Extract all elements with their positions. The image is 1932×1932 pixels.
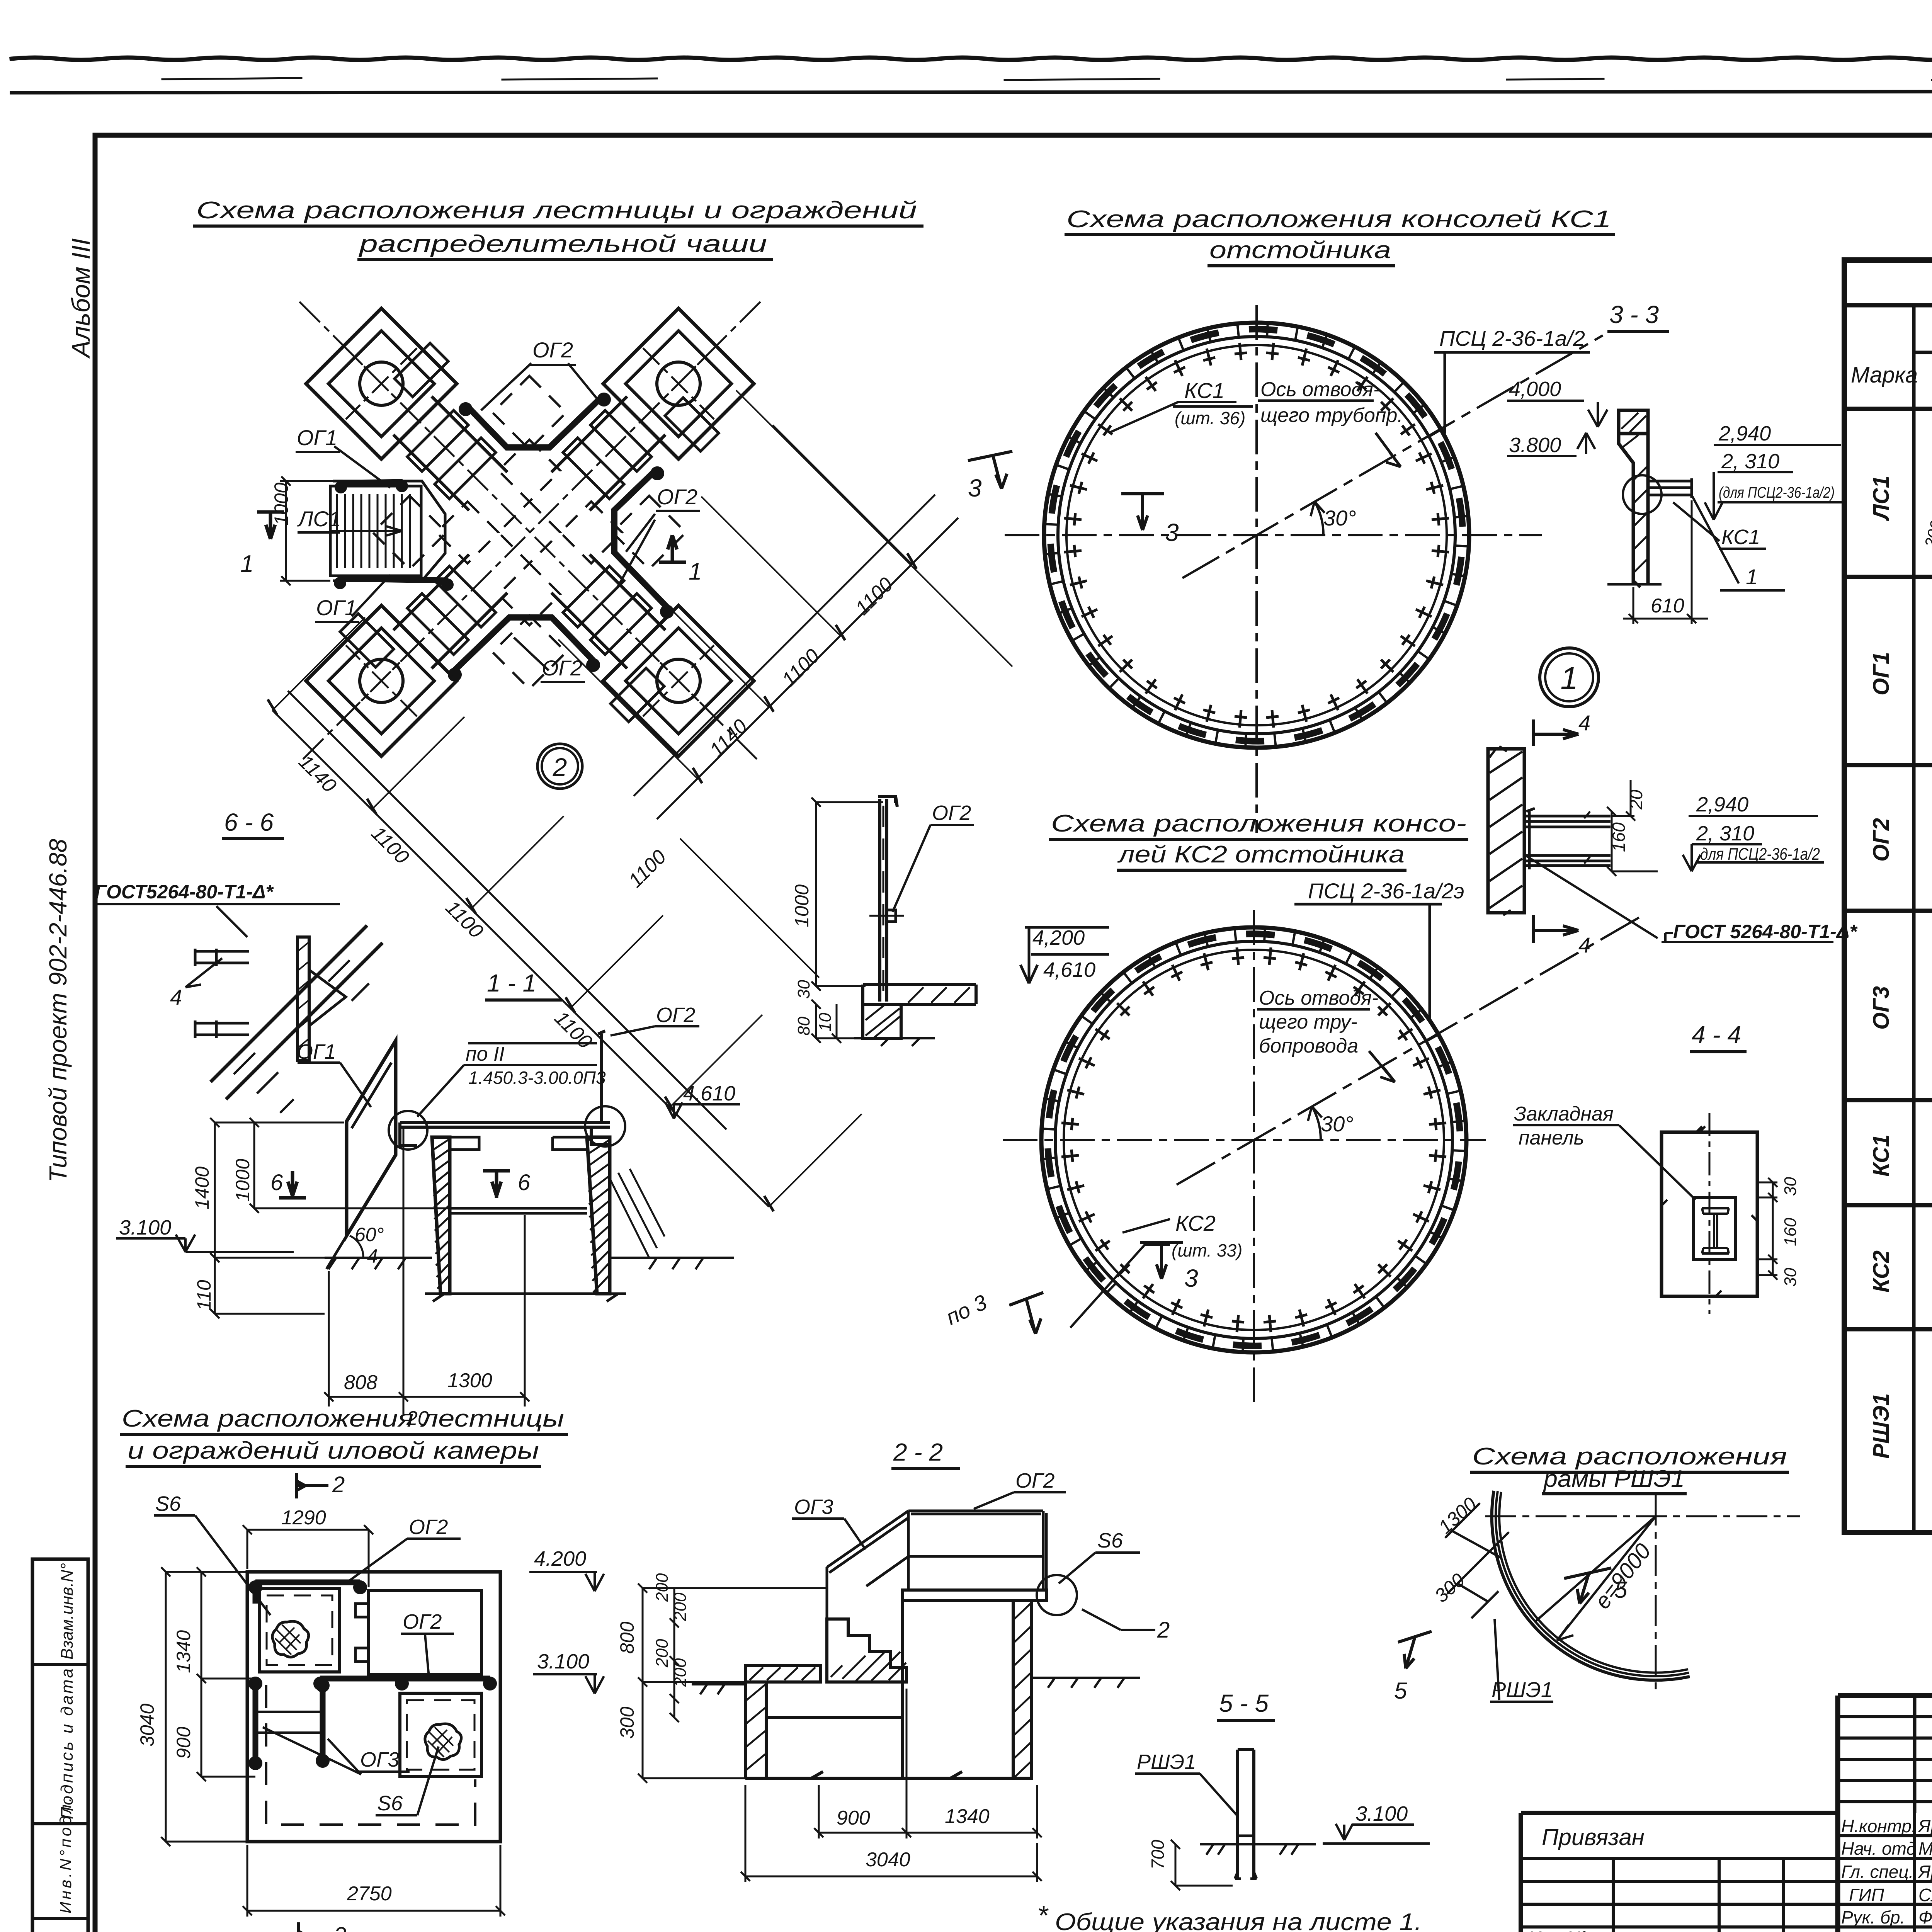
svg-text:Нач. отд: Нач. отд [1841, 1838, 1916, 1859]
table title row divider [1844, 303, 1932, 308]
svg-text:4: 4 [170, 985, 182, 1009]
svg-text:Подпись и дата: Подпись и дата [58, 1668, 77, 1819]
console beams [1524, 816, 1611, 827]
svg-text:S6: S6 [155, 1492, 181, 1515]
svg-text:700: 700 [1148, 1840, 1168, 1869]
sludge chamber outer square [247, 1572, 500, 1842]
main block [902, 1600, 1013, 1778]
svg-text:РШЭ1: РШЭ1 [1137, 1750, 1196, 1774]
svg-text:ОГ2: ОГ2 [656, 1003, 695, 1027]
svg-text:3.100: 3.100 [119, 1216, 171, 1239]
ring KC1 centerlines [1005, 534, 1542, 536]
dim 300 [1447, 1567, 1498, 1618]
svg-text:1 - 1: 1 - 1 [487, 969, 536, 997]
svg-text:1: 1 [1560, 661, 1578, 696]
left platform slab [745, 1665, 821, 1682]
console KC1 beam [1648, 478, 1692, 498]
svg-text:Типовой проект 902-2-446.88: Типовой проект 902-2-446.88 [44, 838, 72, 1182]
svg-text:ОГ2: ОГ2 [409, 1515, 448, 1539]
svg-text:S6: S6 [1097, 1529, 1123, 1552]
svg-text:3.100: 3.100 [1355, 1802, 1408, 1825]
placeholder groups to be filled [240, 302, 1012, 1211]
svg-text:Закладная: Закладная [1514, 1103, 1614, 1125]
3-3 wall body [1619, 434, 1648, 584]
по II leader [417, 1065, 597, 1117]
ОГ1 railing panel in section 1-1 [347, 1041, 396, 1236]
platform end angles [400, 1122, 610, 1146]
svg-text:5 - 5: 5 - 5 [1219, 1689, 1269, 1717]
svg-text:5: 5 [1614, 1577, 1628, 1603]
svg-text:S6: S6 [377, 1792, 403, 1815]
svg-text:5: 5 [1394, 1678, 1407, 1704]
X-plan labels [297, 338, 697, 680]
ОГ2 label leader [350, 1539, 461, 1580]
60deg angle arc [350, 1236, 363, 1258]
svg-text:ОГ1: ОГ1 [1869, 652, 1894, 696]
X-plan pavilion inner squares [328, 331, 731, 734]
right concrete wall hatched [587, 1137, 610, 1294]
6-6 weld joint detail [211, 925, 383, 1099]
svg-text:ПСЦ 2-36-1а/2э: ПСЦ 2-36-1а/2э [1308, 879, 1464, 903]
inner embedded plate [1694, 1197, 1735, 1259]
Ось отводящего arrow [1376, 433, 1401, 467]
X-plan pavilion-side slabs [340, 343, 719, 722]
arc centerlines [1485, 1515, 1800, 1517]
svg-text:1000: 1000 [232, 1159, 253, 1202]
ГОСТ label leader [95, 904, 340, 937]
svg-text:4: 4 [367, 1245, 378, 1267]
КС1 label leader [1673, 502, 1766, 549]
svg-text:Фомина: Фомина [1918, 1907, 1932, 1927]
svg-text:200: 200 [671, 1658, 690, 1687]
svg-text:КС1: КС1 [1869, 1134, 1894, 1177]
svg-text:808: 808 [344, 1371, 378, 1394]
svg-text:610: 610 [1651, 595, 1684, 617]
X-plan arm edges [393, 396, 665, 668]
walkway between walls [450, 1208, 587, 1213]
svg-text:1000: 1000 [270, 483, 292, 526]
svg-text:Схема расположения консо-: Схема расположения консо- [1051, 810, 1466, 837]
svg-text:Ярошенко: Ярошенко [1917, 1816, 1932, 1836]
svg-text:60°: 60° [355, 1224, 384, 1245]
heavy rail top ОГ2 [255, 1582, 360, 1604]
svg-text:6: 6 [518, 1170, 531, 1195]
ground [1200, 1844, 1316, 1855]
bottom dims [814, 1689, 1042, 1838]
stairs steps hatched [827, 1619, 906, 1682]
section flags 4 [1533, 719, 1578, 746]
svg-text:6: 6 [270, 1170, 283, 1195]
svg-text:ОГ3: ОГ3 [360, 1748, 399, 1771]
svg-text:2: 2 [332, 1472, 345, 1497]
svg-text:(шт. 36): (шт. 36) [1175, 408, 1245, 428]
radius leaders [1536, 1516, 1656, 1640]
ring KC2 console marks [1061, 947, 1446, 1332]
ring KC2 centerlines [1003, 1139, 1486, 1141]
svg-text:щего тру-: щего тру- [1259, 1011, 1357, 1033]
svg-text:1.450.3-3.00.0П3: 1.450.3-3.00.0П3 [468, 1068, 606, 1088]
svg-text:лей КС2 отстойника: лей КС2 отстойника [1117, 841, 1405, 868]
svg-text:ОГ2: ОГ2 [1015, 1469, 1054, 1492]
svg-text:ЛС1: ЛС1 [1869, 476, 1894, 521]
right hatched column [1013, 1600, 1032, 1778]
svg-text:2, 310: 2, 310 [1696, 822, 1754, 845]
КС1 label leader [1109, 402, 1236, 433]
svg-text:30: 30 [794, 980, 813, 999]
bolts left [195, 949, 249, 966]
svg-text:ОГ2: ОГ2 [532, 338, 573, 362]
svg-text:2: 2 [1157, 1617, 1170, 1643]
elevation 4.200/4.610 KC2 [1020, 927, 1109, 983]
svg-text:900: 900 [837, 1807, 870, 1829]
КС2 label leader [1070, 1219, 1170, 1328]
platform beam [400, 1122, 610, 1127]
dim lines left [638, 1583, 827, 1783]
pavilion circle centerlines [346, 348, 714, 716]
РШЭ1 frame quarter arc [1499, 1492, 1688, 1673]
svg-text:КС2: КС2 [1175, 1211, 1216, 1235]
left concrete wall hatched [432, 1137, 450, 1294]
svg-text:800: 800 [616, 1621, 638, 1654]
svg-text:ОГ2: ОГ2 [1869, 818, 1894, 862]
svg-text:РШЭ1: РШЭ1 [1492, 1677, 1553, 1702]
svg-text:6 - 6: 6 - 6 [224, 808, 274, 836]
ПСЦ label leader [1434, 352, 1590, 434]
svg-text:1000: 1000 [791, 884, 813, 927]
svg-text:2,940: 2,940 [1696, 793, 1748, 816]
svg-text:4 - 4: 4 - 4 [1692, 1021, 1741, 1049]
dim chain bottom-left [272, 691, 769, 1207]
ring KC2 dark panel segments [1048, 934, 1460, 1346]
drawing number 2 circle [537, 744, 582, 789]
elevation 4.200 [529, 1572, 604, 1591]
svg-text:Схема расположения консолей: Схема расположения консолей КС1 [1066, 206, 1611, 233]
ring KC2 panel joints [1041, 927, 1467, 1353]
svg-text:4,200: 4,200 [1032, 926, 1085, 949]
svg-text:3040: 3040 [136, 1704, 158, 1747]
flags 2 [297, 1473, 328, 1498]
svg-text:200: 200 [671, 1592, 690, 1621]
svg-text:КС1: КС1 [1184, 378, 1225, 403]
X-plan diagonal centerlines [299, 302, 760, 763]
svg-text:Рук. бр.: Рук. бр. [1841, 1907, 1905, 1927]
svg-text:30: 30 [1781, 1177, 1800, 1196]
svg-text:3: 3 [968, 474, 982, 502]
svg-text:Взам.инв.N°: Взам.инв.N° [58, 1563, 77, 1660]
svg-text:30: 30 [1781, 1268, 1800, 1287]
bay railing heavy polylines ОГ2 [455, 395, 667, 670]
middle heavy rail [320, 1676, 490, 1682]
svg-text:ОГ1: ОГ1 [297, 425, 337, 450]
embedded panel 4-4 [1662, 1132, 1757, 1296]
ОГ2 #2 leader [401, 1634, 454, 1677]
dim chain right [634, 495, 958, 819]
svg-text:щего трубопр.: щего трубопр. [1260, 404, 1403, 427]
wall bottoms [425, 1294, 626, 1301]
big dashed inner outline [266, 1685, 475, 1825]
dim 1000 [811, 798, 883, 991]
svg-text:и ограждений иловой камеры: и ограждений иловой камеры [128, 1437, 539, 1464]
ring KC1 dark panel segments [1051, 329, 1463, 741]
ground right with slope hatch [610, 1258, 734, 1269]
svg-text:ОГ2: ОГ2 [542, 656, 582, 680]
ОГ2 post [598, 1031, 605, 1122]
svg-text:Привязан: Привязан [1542, 1824, 1645, 1850]
svg-text:3: 3 [1165, 519, 1179, 546]
svg-text:30°: 30° [1323, 506, 1356, 530]
svg-text:для ПСЦ2-36-1а/2: для ПСЦ2-36-1а/2 [1700, 845, 1820, 864]
bottom dims [324, 1128, 529, 1414]
svg-text:1290: 1290 [281, 1507, 326, 1529]
flag 5 upper [1564, 1568, 1611, 1604]
svg-text:ГОСТ5264-80-Т1-Δ*: ГОСТ5264-80-Т1-Δ* [95, 881, 274, 903]
svg-text:4.200: 4.200 [534, 1547, 586, 1570]
svg-text:Схема расположения лестницы: Схема расположения лестницы [122, 1405, 564, 1432]
dim 160/20 [1607, 780, 1658, 876]
svg-text:2: 2 [333, 1923, 346, 1932]
svg-text:Ст. инж.: Ст. инж. [1841, 1929, 1915, 1932]
4 leader [185, 958, 222, 987]
upper-left hatch opening [260, 1588, 339, 1672]
upper small grid [1838, 1717, 1932, 1802]
lower-right opening [400, 1693, 481, 1777]
svg-text:ГОСТ 5264-80-Т1-Δ*: ГОСТ 5264-80-Т1-Δ* [1673, 921, 1858, 942]
2,940/2,310 labels [1705, 445, 1843, 520]
700 dim [1171, 1840, 1233, 1890]
svg-text:Н.контр.: Н.контр. [1841, 1816, 1917, 1836]
svg-text:900: 900 [173, 1726, 194, 1759]
610 dim [1623, 500, 1708, 624]
svg-text:КС2: КС2 [1869, 1250, 1894, 1293]
bottom dim 2750 [243, 1845, 505, 1917]
4.610 elevation [665, 1102, 740, 1119]
joint circles [389, 1111, 427, 1150]
ring KC1 30deg arc arrow [1315, 502, 1323, 535]
svg-text:РШЭ1: РШЭ1 [1869, 1393, 1894, 1459]
svg-text:30°: 30° [1321, 1112, 1354, 1136]
svg-text:200: 200 [653, 1639, 672, 1668]
svg-text:1: 1 [689, 558, 702, 585]
svg-text:3 - 3: 3 - 3 [1609, 301, 1659, 328]
labels 2,940 / 2,310 [1683, 816, 1824, 871]
svg-text:4,000: 4,000 [1509, 378, 1561, 401]
elevations 4.000 / 3.800 [1507, 401, 1607, 427]
svg-text:1400: 1400 [191, 1167, 213, 1209]
svg-text:*: * [1037, 1900, 1049, 1931]
ring KC2 30deg arc arrow [1312, 1106, 1321, 1140]
ОГ2 label leader [611, 1026, 699, 1036]
svg-text:1300: 1300 [447, 1369, 492, 1392]
ground tick [1607, 582, 1662, 587]
svg-text:Гл. спец.: Гл. спец. [1841, 1862, 1913, 1882]
table Ведомость элементов : outer border [1844, 260, 1932, 1532]
big settler ring circle KC2 : outer wall [1041, 927, 1466, 1352]
svg-text:Ярошенко: Ярошенко [1917, 1862, 1932, 1882]
svg-text:3.100: 3.100 [537, 1650, 589, 1673]
data verticals full height [1914, 409, 1932, 1532]
svg-text:3040: 3040 [866, 1849, 910, 1871]
signature rows [1841, 1816, 1932, 1932]
svg-text:4,610: 4,610 [1043, 958, 1095, 981]
svg-text:2750: 2750 [347, 1883, 392, 1905]
svg-text:Мешалкин: Мешалкин [1918, 1838, 1932, 1859]
svg-text:ОГ3: ОГ3 [794, 1495, 833, 1519]
svg-text:200: 200 [653, 1573, 672, 1602]
svg-text:ОГ2: ОГ2 [657, 485, 697, 509]
ОГ3 leaders [263, 1727, 410, 1774]
svg-text:10: 10 [816, 1013, 835, 1032]
ring KC1 panel joints [1044, 322, 1469, 748]
svg-text:500: 500 [1930, 965, 1932, 989]
svg-text:ЛС1: ЛС1 [297, 507, 341, 531]
svg-text:300: 300 [616, 1706, 638, 1739]
S6 #2 leader [376, 1747, 439, 1815]
svg-text:20: 20 [406, 1407, 429, 1430]
left sidebar boxes [32, 1559, 88, 1932]
svg-text:4: 4 [1578, 933, 1590, 957]
svg-text:Ось отводя-: Ось отводя- [1259, 987, 1378, 1009]
svg-text:160: 160 [1781, 1218, 1800, 1246]
left lower block [745, 1682, 902, 1778]
bottom line [745, 1772, 1032, 1778]
РШЭ1 leader [1135, 1774, 1238, 1816]
elevation 3.100 [116, 1235, 294, 1252]
label leader [1513, 1125, 1696, 1200]
svg-text:отстойника: отстойника [1209, 237, 1391, 264]
svg-text:80: 80 [794, 1017, 813, 1036]
svg-text:ОГ2: ОГ2 [403, 1610, 442, 1633]
section 6 flags [279, 1171, 306, 1198]
slanted railing ОГ3 [827, 1511, 908, 1619]
ring KC2 30 deg outlet axis [1177, 915, 1644, 1185]
ground hatches [692, 1678, 1140, 1694]
svg-text:панель: панель [1519, 1127, 1584, 1149]
svg-text:2,940: 2,940 [1718, 422, 1771, 445]
svg-text:Инв.N°: Инв.N° [1528, 1928, 1587, 1932]
svg-text:160: 160 [1609, 822, 1629, 852]
block boundary heavy lines [1844, 577, 1932, 1329]
dims 30 80 10 [811, 1000, 862, 1043]
svg-text:по II: по II [466, 1043, 505, 1065]
svg-text:Общие указания на листе 1.: Общие указания на листе 1. [1055, 1909, 1422, 1932]
svg-text:Славянский: Славянский [1918, 1885, 1932, 1905]
title block outer border [1838, 1696, 1932, 1932]
svg-text:Схема расположения лестницы: Схема расположения лестницы и ограждений [196, 197, 917, 224]
svg-text:4.610: 4.610 [683, 1082, 735, 1105]
flag 5 lower left [1398, 1631, 1432, 1668]
svg-text:2, 310: 2, 310 [1721, 450, 1779, 473]
1 leader [1692, 497, 1785, 590]
Марка column rotated labels [1869, 476, 1894, 1459]
blob S6 upper [272, 1621, 309, 1657]
ПСЦ 2э label leader [1294, 904, 1442, 1019]
left dim lines [161, 1567, 255, 1846]
svg-text:(для ПСЦ2-36-1а/2): (для ПСЦ2-36-1а/2) [1719, 484, 1835, 501]
right room [369, 1590, 481, 1674]
elevation 3.100 [533, 1674, 604, 1694]
labels leaders [974, 1492, 1066, 1509]
svg-text:1340: 1340 [945, 1805, 990, 1828]
ОГ2 label leader [893, 825, 974, 912]
svg-text:Тюрина: Тюрина [1918, 1929, 1932, 1932]
svg-text:Марка: Марка [1851, 362, 1918, 388]
big settler ring circle KC1 : outer wall [1044, 323, 1469, 748]
30/160/30 dims [1757, 1178, 1777, 1280]
svg-text:600: 600 [1930, 1019, 1932, 1043]
ground left [325, 1258, 432, 1269]
привязан box [1521, 1813, 1838, 1932]
РШЭ1 label leader [1490, 1619, 1553, 1702]
svg-text:ПСЦ 2-36-1а/2: ПСЦ 2-36-1а/2 [1439, 326, 1585, 350]
X-plan pavilion circles [360, 362, 403, 405]
Ось отводящего arrow KC2 [1369, 1051, 1395, 1082]
3.100 [1323, 1824, 1430, 1844]
section flag 3 inner [1121, 494, 1164, 530]
top sheet inner straight line [12, 91, 1932, 93]
svg-text:3.800: 3.800 [1509, 434, 1561, 457]
central plate [298, 937, 309, 1061]
svg-text:Ось отводя-: Ось отводя- [1260, 378, 1380, 401]
svg-text:3: 3 [1184, 1264, 1198, 1292]
header verticals [1914, 305, 1932, 409]
ОГ2 post elevation detail [880, 799, 887, 1002]
svg-text:ОГ2: ОГ2 [932, 801, 971, 825]
V opening [309, 970, 346, 1026]
left heavy verticals (ladder) [255, 1679, 323, 1758]
svg-text:1: 1 [1746, 565, 1758, 589]
drawing number 1 circle [1540, 648, 1599, 707]
header band lines [1914, 352, 1932, 367]
5-5 post РШЭ1 [1238, 1750, 1254, 1879]
dim 1290 [243, 1525, 373, 1587]
dim lines left [210, 1118, 450, 1262]
3-3 wall cap [1619, 410, 1648, 434]
post top hook [878, 797, 897, 807]
svg-text:2: 2 [553, 753, 567, 781]
svg-text:2 - 2: 2 - 2 [893, 1438, 943, 1466]
section flag по 3 [1009, 1293, 1043, 1334]
ring KC1 console marks [1064, 343, 1449, 728]
svg-text:1: 1 [240, 551, 253, 577]
svg-text:110: 110 [193, 1280, 215, 1311]
svg-text:1340: 1340 [173, 1630, 194, 1673]
section flag 3 KC2 [1140, 1242, 1183, 1279]
svg-text:ОГ3: ОГ3 [1869, 986, 1894, 1030]
ring KC1 30 deg outlet axis [1182, 335, 1603, 578]
X-plan pavilion outer squares [306, 308, 754, 756]
svg-text:ОГ1: ОГ1 [316, 595, 357, 620]
signature columns [1915, 1813, 1932, 1932]
svg-text:4: 4 [1578, 711, 1590, 735]
ladder ЛС1 [330, 486, 421, 576]
svg-text:Альбом III: Альбом III [66, 238, 95, 359]
top faint broken line [162, 78, 1932, 80]
small bracket mid [887, 910, 896, 922]
dashed diamond lattice [373, 376, 686, 689]
svg-text:бопровода: бопровода [1259, 1035, 1358, 1057]
section flags 1-1 [257, 512, 686, 562]
I profile [1702, 1208, 1729, 1214]
dim labels on chains [294, 573, 898, 1053]
S6 label leader [154, 1515, 270, 1615]
section flag 3 upper left [968, 451, 1012, 489]
X-plan walkway slabs [407, 410, 651, 655]
2-2 railing upper band [908, 1511, 1046, 1590]
ОГ1 label leader [298, 1063, 371, 1107]
concrete step hatched [863, 985, 976, 1004]
ladder bay hexagon outline [333, 481, 445, 581]
inner ledge lines [450, 1137, 587, 1150]
